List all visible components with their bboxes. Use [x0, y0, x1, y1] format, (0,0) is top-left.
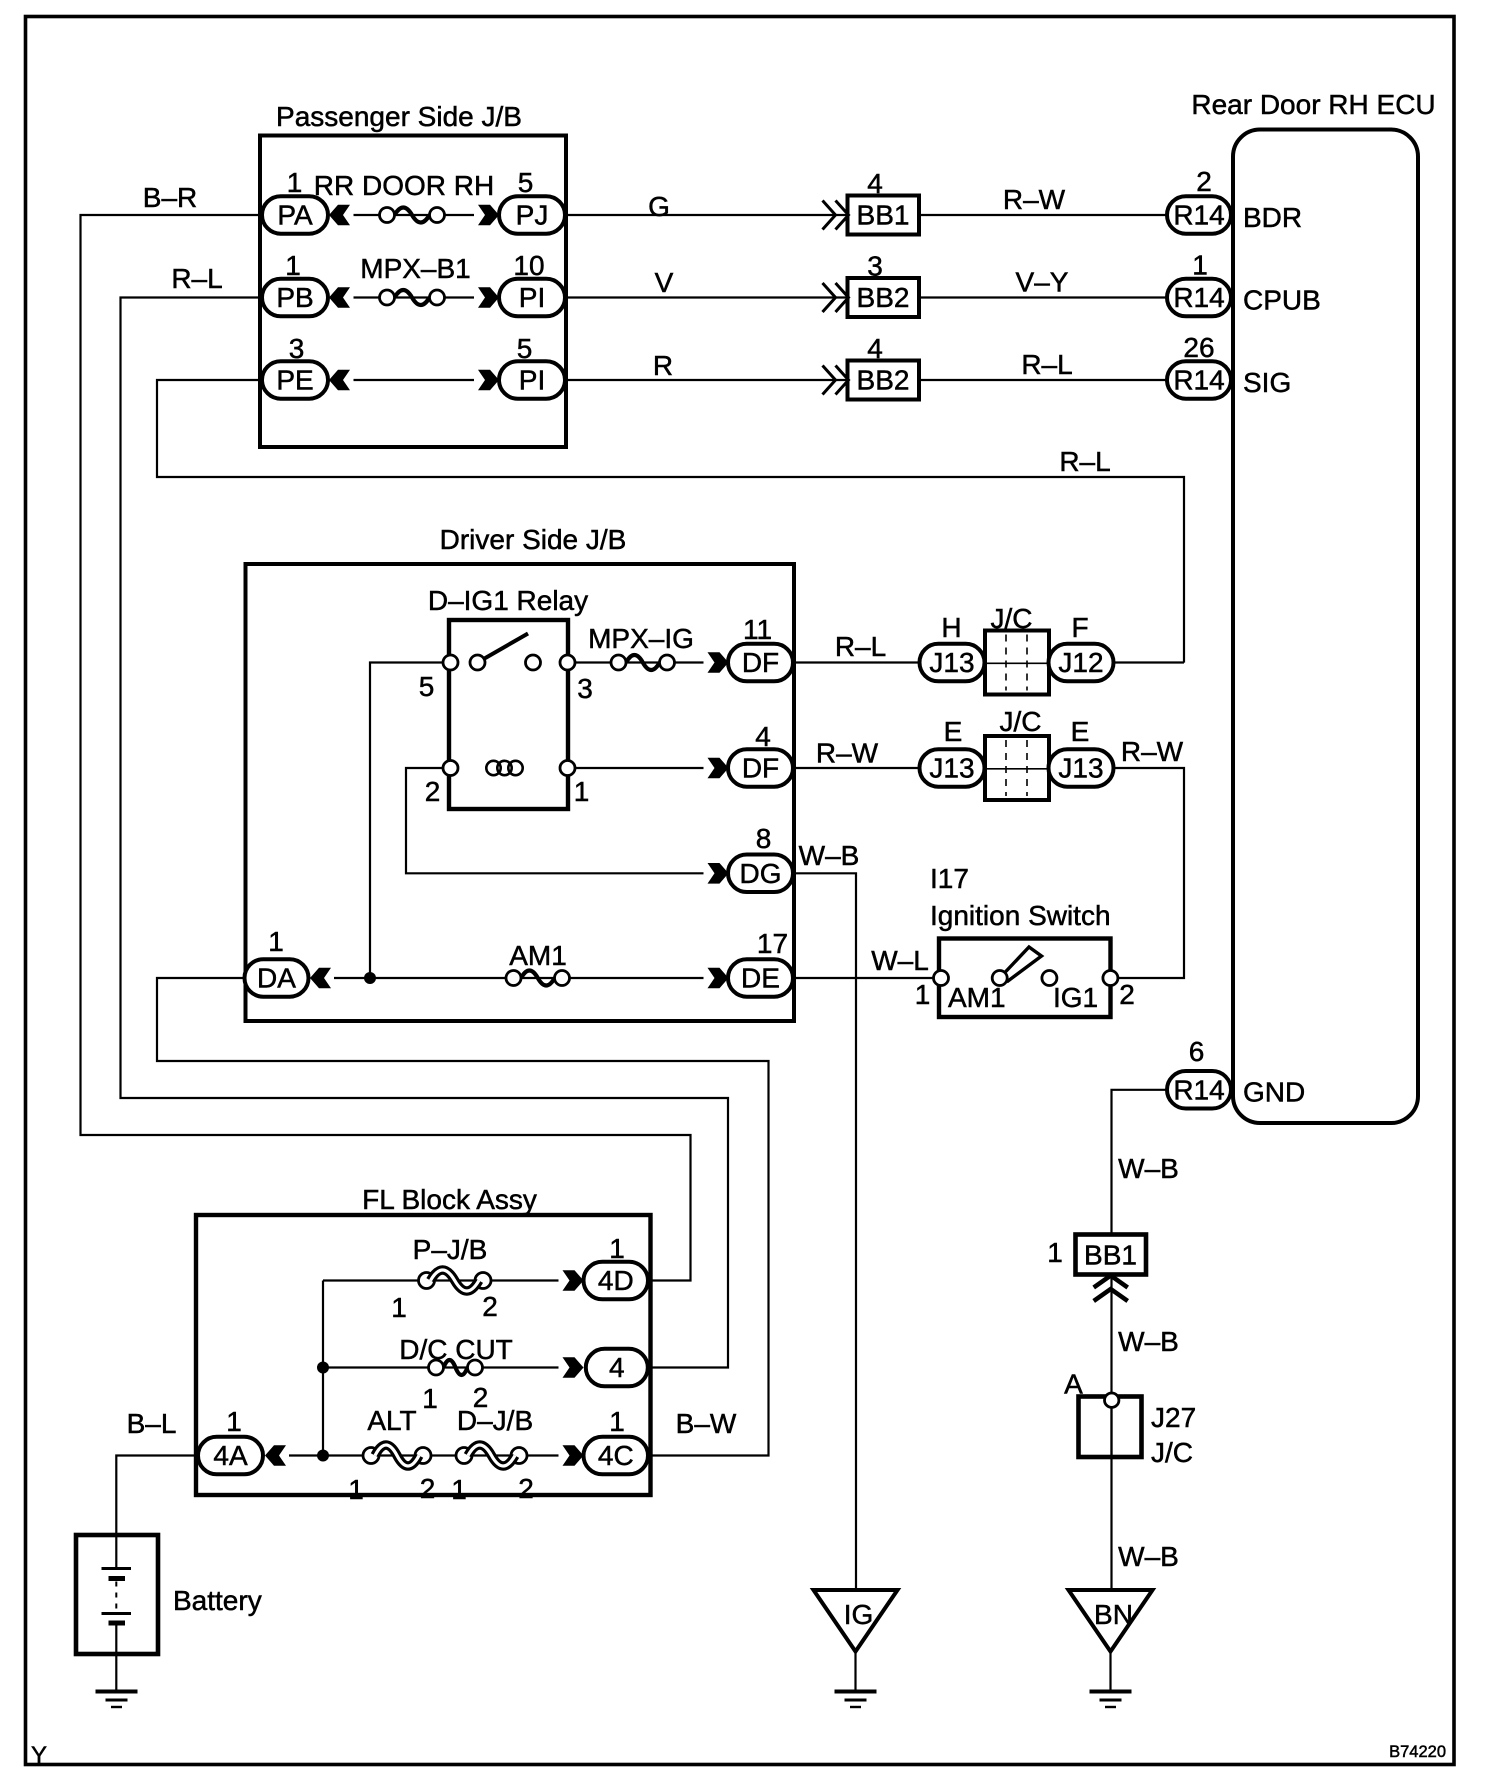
svg-text:4: 4 — [609, 1352, 625, 1383]
svg-text:BN: BN — [1094, 1599, 1133, 1630]
wire relay pin1 to DF — [568, 767, 704, 769]
wire BN triangle to ground — [1109, 1651, 1111, 1691]
pin 5 of PI row3 — [517, 333, 533, 364]
ignition switch blade — [1003, 947, 1042, 981]
label BB1 — [857, 200, 910, 231]
label R-L left — [171, 263, 222, 294]
pin 1 of BB1 lower — [1047, 1237, 1063, 1268]
label B-R — [143, 182, 197, 213]
label B-W — [676, 1408, 737, 1439]
svg-text:R14: R14 — [1173, 200, 1224, 231]
junction block Passenger Side J/B — [260, 136, 566, 448]
arrow into DF 4 — [708, 758, 729, 779]
ground BN — [1090, 1692, 1132, 1708]
wire B-W from DA to FL block 4C — [157, 978, 769, 1456]
relay D-IG1 — [449, 620, 568, 809]
svg-text:1: 1 — [226, 1406, 242, 1437]
pin 2 of relay — [425, 776, 441, 807]
splice chevrons BB1 — [823, 201, 849, 230]
pin 1 of 4C — [609, 1406, 625, 1437]
svg-text:R–L: R–L — [835, 631, 886, 662]
ground IG — [835, 1692, 877, 1708]
svg-text:17: 17 — [757, 928, 788, 959]
svg-text:E: E — [944, 716, 963, 747]
pin H of J13 — [941, 612, 961, 643]
connector PJ — [499, 196, 565, 234]
connector BB1 lower — [1076, 1235, 1147, 1275]
wire relay pin3 through MPX-IG to DF — [568, 661, 704, 663]
pin 2 of ALT — [420, 1473, 436, 1504]
pin 1 of 4D — [609, 1233, 625, 1264]
ignition IG1 contact — [1042, 971, 1057, 986]
label J27 — [1151, 1402, 1196, 1433]
label W-B upper — [1118, 1153, 1179, 1184]
fuse RR DOOR RH — [380, 208, 445, 223]
label R-L DF to J13 — [835, 631, 886, 662]
power symbol IG — [814, 1590, 898, 1652]
wire PE to PI — [354, 379, 475, 381]
label R-L row3 — [1021, 349, 1072, 380]
pin 1 of PA — [287, 167, 303, 198]
wire IG triangle to ground — [854, 1651, 856, 1691]
arrow into 4D — [563, 1270, 584, 1291]
connector J13 H — [920, 644, 985, 682]
svg-text:6: 6 — [1189, 1036, 1205, 1067]
wire R from PI to BB2 — [565, 379, 848, 381]
fusible link ALT — [363, 1445, 431, 1466]
svg-text:R: R — [653, 350, 673, 381]
svg-text:DE: DE — [741, 963, 780, 994]
svg-text:5: 5 — [518, 167, 534, 198]
pin 3 of BB2 — [867, 251, 883, 282]
wire P-J/B row — [323, 1279, 559, 1281]
svg-text:R14: R14 — [1173, 1074, 1224, 1105]
wire D/C CUT row — [323, 1366, 559, 1368]
svg-text:J/C: J/C — [1151, 1437, 1193, 1468]
pin 1 of D/C CUT — [422, 1383, 438, 1414]
label MPX-IG — [588, 623, 694, 654]
wire through J27 — [1110, 1397, 1112, 1458]
arrow into PI — [478, 287, 499, 308]
label V-Y — [1016, 267, 1069, 298]
connector BB1 top — [848, 196, 920, 235]
label wire R — [653, 350, 673, 381]
ECU Rear Door RH box — [1233, 130, 1418, 1124]
svg-text:PA: PA — [277, 200, 313, 231]
wire J12 to R-L riser — [1114, 661, 1185, 663]
arrow into 4 — [563, 1357, 584, 1378]
svg-text:GND: GND — [1243, 1077, 1305, 1108]
pin 1 of ignition switch — [915, 979, 931, 1010]
relay pin 5 contact — [443, 655, 458, 670]
svg-text:Y: Y — [31, 1742, 47, 1769]
svg-text:1: 1 — [391, 1292, 407, 1323]
label AM1 contact — [948, 982, 1006, 1013]
svg-text:D/C CUT: D/C CUT — [399, 1334, 513, 1365]
wire V from PI to BB2 — [565, 296, 848, 298]
label wire V — [655, 267, 674, 298]
label ALT — [367, 1405, 416, 1436]
svg-text:B–W: B–W — [676, 1408, 737, 1439]
fuse MPX-IG — [611, 655, 675, 670]
svg-text:Ignition Switch: Ignition Switch — [930, 900, 1111, 931]
label FL Block Assy — [362, 1184, 537, 1215]
junction D/C CUT row — [317, 1362, 329, 1374]
connector J13 E left — [920, 749, 985, 787]
svg-text:4C: 4C — [598, 1440, 634, 1471]
arrow into PA — [329, 205, 350, 226]
svg-text:AM1: AM1 — [509, 940, 567, 971]
wire FL block bus vertical — [322, 1281, 324, 1456]
label fuse AM1 — [509, 940, 567, 971]
node A circle — [1105, 1393, 1119, 1407]
svg-text:SIG: SIG — [1243, 367, 1291, 398]
connector DF 4 — [728, 749, 793, 787]
relay coil — [486, 761, 522, 775]
connector DF 11 — [728, 644, 793, 682]
wire PB to PI through fuse — [354, 296, 475, 298]
svg-text:CPUB: CPUB — [1243, 285, 1321, 316]
svg-text:J/C: J/C — [1000, 706, 1042, 737]
svg-text:PB: PB — [276, 282, 313, 313]
svg-text:1: 1 — [915, 979, 931, 1010]
svg-text:J27: J27 — [1151, 1402, 1196, 1433]
wire R-W from DF to J13 E — [793, 767, 920, 769]
svg-text:1: 1 — [268, 926, 284, 957]
pin 2 of D-J/B — [518, 1473, 534, 1504]
svg-text:3: 3 — [577, 673, 593, 704]
svg-text:B–L: B–L — [127, 1408, 177, 1439]
pin 3 of relay — [577, 673, 593, 704]
label W-L — [871, 945, 929, 976]
battery — [76, 1535, 158, 1654]
label BB1 lower — [1084, 1240, 1137, 1271]
svg-text:R–W: R–W — [1003, 184, 1066, 215]
connector J13 E right — [1049, 749, 1114, 787]
label P-J/B — [413, 1234, 488, 1265]
connector BB2 row2 — [848, 278, 920, 317]
svg-text:AM1: AM1 — [948, 982, 1006, 1013]
pin 1 of relay — [574, 776, 590, 807]
label Passenger Side J/B — [276, 101, 522, 132]
wire W-B from BB1 to BN triangle — [1110, 1275, 1112, 1591]
wire B-R from PA to FL block 4D — [81, 215, 691, 1281]
pin 11 of DF — [743, 614, 772, 645]
svg-text:W–B: W–B — [1118, 1326, 1179, 1357]
pin 26 of R14 SIG — [1183, 332, 1214, 363]
connector 4C — [584, 1437, 649, 1475]
svg-text:F: F — [1071, 612, 1088, 643]
connector BB2 row3 — [848, 361, 920, 400]
svg-text:DG: DG — [740, 858, 782, 889]
pin 1 of DA — [268, 926, 284, 957]
svg-text:2: 2 — [1196, 166, 1212, 197]
pin 4 of BB2 row3 — [867, 333, 883, 364]
svg-text:PE: PE — [276, 365, 313, 396]
svg-text:BB2: BB2 — [857, 282, 910, 313]
svg-text:V: V — [655, 267, 674, 298]
connector R14 GND — [1167, 1071, 1231, 1109]
connector PB — [262, 279, 328, 317]
connector R14 CPUB — [1167, 279, 1231, 317]
label SIG — [1243, 367, 1291, 398]
svg-text:R14: R14 — [1173, 282, 1224, 313]
wire W-L from DE to ignition switch pin1 — [793, 977, 941, 979]
svg-text:R14: R14 — [1173, 365, 1224, 396]
svg-text:5: 5 — [419, 671, 435, 702]
svg-text:W–B: W–B — [1118, 1153, 1179, 1184]
wire relay pin2 to DG — [406, 768, 704, 873]
svg-text:J12: J12 — [1058, 647, 1103, 678]
label R-L return wire — [1059, 446, 1110, 477]
pin 2 of P-J/B — [482, 1291, 498, 1322]
connector PI row2 — [499, 279, 565, 317]
wire W-B from R14 GND to BB1 — [1112, 1090, 1168, 1235]
node A label — [1064, 1369, 1083, 1400]
relay pin 2 contact — [443, 761, 458, 776]
svg-text:Battery: Battery — [173, 1585, 262, 1616]
svg-text:10: 10 — [513, 250, 544, 281]
wire W-B from DG to IG triangle — [793, 873, 856, 1590]
wire relay pin5 to AM1 node — [370, 663, 451, 979]
pin 1 of PB — [285, 250, 301, 281]
connector 4 — [586, 1349, 648, 1387]
fuse AM1 — [506, 971, 570, 986]
fuse D/C CUT — [429, 1360, 483, 1375]
label MPX-B1 — [360, 253, 471, 284]
label J/C of J27 — [1151, 1437, 1193, 1468]
svg-text:1: 1 — [287, 167, 303, 198]
pin E of J13 right — [1071, 716, 1090, 747]
junction connector J/C top — [985, 631, 1049, 695]
relay blade contact left — [470, 655, 485, 670]
svg-text:H: H — [941, 612, 961, 643]
relay blade contact right — [526, 655, 541, 670]
label Driver Side J/B — [440, 524, 627, 555]
svg-text:BB1: BB1 — [857, 200, 910, 231]
svg-text:1: 1 — [285, 250, 301, 281]
pin 2 of D/C CUT — [473, 1382, 489, 1413]
label Rear Door RH ECU — [1191, 89, 1435, 120]
connector R14 SIG — [1167, 361, 1231, 399]
svg-text:4D: 4D — [598, 1265, 634, 1296]
pin 5 of relay — [419, 671, 435, 702]
svg-text:FL Block Assy: FL Block Assy — [362, 1184, 537, 1215]
label J/C bottom — [1000, 706, 1042, 737]
splice chevrons BB2 row2 — [823, 283, 849, 312]
wire B-L from 4A to battery — [116, 1456, 198, 1536]
svg-text:1: 1 — [348, 1474, 364, 1505]
pin 10 of PI — [513, 250, 544, 281]
arrow into DF 11 — [708, 652, 729, 673]
label I17 — [930, 863, 969, 894]
label B74220 — [1389, 1743, 1446, 1761]
svg-text:ALT: ALT — [367, 1405, 416, 1436]
svg-text:DF: DF — [742, 753, 779, 784]
svg-text:DA: DA — [257, 963, 296, 994]
svg-text:R–W: R–W — [1121, 736, 1184, 767]
arrow into PJ — [478, 205, 499, 226]
label W-B DG wire — [799, 840, 860, 871]
label BDR — [1243, 202, 1302, 233]
svg-text:P–J/B: P–J/B — [413, 1234, 488, 1265]
svg-text:8: 8 — [756, 823, 772, 854]
arrow into 4C — [563, 1445, 584, 1466]
junction ALT row — [317, 1450, 329, 1462]
wire V-Y from BB2 to R14 CPUB — [919, 296, 1167, 298]
pin 1 of ALT — [348, 1474, 364, 1505]
relay pin 1 contact — [560, 761, 575, 776]
wire R-L from PE to J12 — [157, 380, 1184, 663]
label D-J/B — [457, 1405, 533, 1436]
pin 1 of R14 CPUB — [1192, 250, 1208, 281]
label BB2 row2 — [857, 282, 910, 313]
ignition pin 1 contact — [934, 971, 949, 986]
svg-text:W–B: W–B — [1118, 1541, 1179, 1572]
svg-text:G: G — [648, 191, 670, 222]
label J/C top — [991, 603, 1033, 634]
label R-W to ignition switch — [1121, 736, 1184, 767]
label wire G — [648, 191, 670, 222]
arrow into DG — [708, 863, 729, 884]
pin 4 of DF — [755, 721, 771, 752]
svg-text:R–L: R–L — [1021, 349, 1072, 380]
svg-text:B–R: B–R — [143, 182, 197, 213]
label W-B middle — [1118, 1326, 1179, 1357]
ignition pin 2 contact — [1103, 971, 1118, 986]
wire battery to ground — [115, 1654, 117, 1691]
label GND — [1243, 1077, 1305, 1108]
svg-text:PI: PI — [519, 365, 545, 396]
wire G from PJ to BB1 — [565, 214, 848, 216]
arrow into PE — [329, 370, 350, 391]
svg-text:2: 2 — [482, 1291, 498, 1322]
label Y — [31, 1742, 47, 1769]
label R-W DF to J13 — [816, 738, 879, 769]
svg-text:2: 2 — [1119, 979, 1135, 1010]
FL Block Assy box — [196, 1215, 651, 1495]
svg-text:R–L: R–L — [171, 263, 222, 294]
svg-text:V–Y: V–Y — [1016, 267, 1069, 298]
svg-text:PJ: PJ — [516, 200, 549, 231]
connector PI row3 — [499, 361, 565, 399]
junction connector J27 — [1079, 1397, 1142, 1458]
svg-text:1: 1 — [451, 1474, 467, 1505]
ground battery — [96, 1692, 138, 1708]
svg-text:Passenger Side J/B: Passenger Side J/B — [276, 101, 522, 132]
splice chevrons below BB1 — [1094, 1276, 1128, 1302]
svg-text:IG1: IG1 — [1053, 982, 1098, 1013]
splice chevrons BB2 row3 — [823, 366, 849, 395]
arrow into PI row3 — [478, 370, 499, 391]
svg-text:1: 1 — [1192, 250, 1208, 281]
pin F of J12 — [1071, 612, 1088, 643]
label D-IG1 Relay — [428, 585, 588, 616]
connector DG — [728, 855, 793, 893]
svg-text:2: 2 — [420, 1473, 436, 1504]
svg-text:BB1: BB1 — [1084, 1240, 1137, 1271]
label D/C CUT — [399, 1334, 513, 1365]
label B-L — [127, 1408, 177, 1439]
svg-text:1: 1 — [609, 1406, 625, 1437]
svg-text:DF: DF — [742, 647, 779, 678]
connector DA — [245, 959, 309, 997]
svg-text:W–L: W–L — [871, 945, 929, 976]
connector PA — [262, 196, 328, 234]
svg-text:MPX–B1: MPX–B1 — [360, 253, 471, 284]
arrow into DA — [310, 968, 331, 989]
wire R-W from BB1 to R14 BDR — [919, 214, 1167, 216]
svg-text:11: 11 — [743, 614, 772, 645]
connector 4A — [198, 1437, 263, 1475]
svg-text:IG: IG — [844, 1599, 874, 1630]
svg-text:D–J/B: D–J/B — [457, 1405, 533, 1436]
svg-text:1: 1 — [609, 1233, 625, 1264]
pin 4 of BB1 — [867, 168, 883, 199]
svg-text:D–IG1 Relay: D–IG1 Relay — [428, 585, 588, 616]
svg-text:Driver Side J/B: Driver Side J/B — [440, 524, 627, 555]
svg-text:J13: J13 — [929, 753, 974, 784]
pin 3 of PE — [289, 333, 305, 364]
svg-text:PI: PI — [519, 282, 545, 313]
arrow into DE — [708, 968, 729, 989]
label BB2 row3 — [857, 365, 910, 396]
wire ALT D-J/B row — [289, 1454, 559, 1456]
svg-text:BDR: BDR — [1243, 202, 1302, 233]
svg-text:4A: 4A — [213, 1440, 248, 1471]
svg-text:2: 2 — [425, 776, 441, 807]
fusible link D-J/B — [456, 1445, 527, 1466]
pin 1 of 4A — [226, 1406, 242, 1437]
svg-text:RR DOOR RH: RR DOOR RH — [314, 170, 494, 201]
wire R-L from BB2 to R14 SIG — [919, 379, 1167, 381]
connector J12 F — [1049, 644, 1114, 682]
svg-text:MPX–IG: MPX–IG — [588, 623, 694, 654]
label CPUB — [1243, 285, 1321, 316]
svg-text:2: 2 — [518, 1473, 534, 1504]
pin 1 of P-J/B — [391, 1292, 407, 1323]
svg-text:J13: J13 — [1058, 753, 1103, 784]
label IG1 contact — [1053, 982, 1098, 1013]
connector DE — [728, 959, 793, 997]
ground symbol BN — [1069, 1590, 1153, 1652]
junction AM1 node — [364, 972, 376, 984]
svg-text:E: E — [1071, 716, 1090, 747]
fuse MPX-B1 — [380, 290, 445, 305]
svg-text:26: 26 — [1183, 332, 1214, 363]
svg-text:Rear Door RH ECU: Rear Door RH ECU — [1191, 89, 1435, 120]
svg-text:B74220: B74220 — [1389, 1743, 1446, 1761]
connector R14 BDR — [1167, 196, 1231, 234]
wire R-L from PB to FL block 4 — [121, 298, 729, 1368]
junction connector J/C bottom — [985, 736, 1049, 800]
relay switch blade — [478, 634, 529, 663]
svg-text:BB2: BB2 — [857, 365, 910, 396]
label R-W top — [1003, 184, 1066, 215]
wire PA to PJ through fuse — [354, 214, 475, 216]
label RR DOOR RH — [314, 170, 494, 201]
pin 8 of DG — [756, 823, 772, 854]
relay pin 3 contact — [560, 655, 575, 670]
wire R-L from DF to J13 H — [793, 661, 920, 663]
svg-text:I17: I17 — [930, 863, 969, 894]
wire R-W from J13 E to ignition switch pin2 — [1110, 768, 1184, 978]
pin E of J13 left — [944, 716, 963, 747]
svg-text:1: 1 — [574, 776, 590, 807]
ignition switch I17 box — [939, 939, 1111, 1018]
pin 5 of PJ — [518, 167, 534, 198]
junction block Driver Side J/B — [246, 564, 795, 1021]
